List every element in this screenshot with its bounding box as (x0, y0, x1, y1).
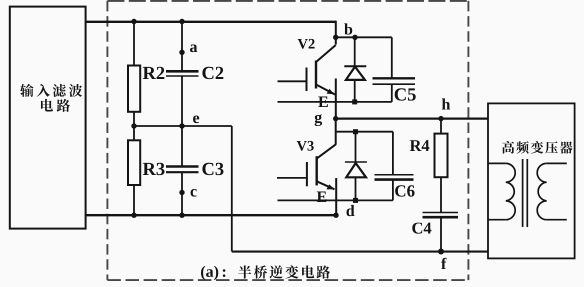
junction dot: top rail / C2 (179, 19, 184, 24)
capacitor C5 (373, 78, 416, 84)
label: input filter circuit text (20, 84, 82, 112)
junction square: diode D2 anode row (352, 99, 357, 104)
label f (441, 258, 446, 269)
wire: V3 branch row to C6 (392, 132, 394, 175)
wire: V2 collector drop from top rail (335, 21, 337, 45)
label R3 (143, 163, 156, 175)
junction square: diode D3 anode row (353, 198, 358, 203)
node g (333, 116, 338, 121)
wire: top DC rail (85, 21, 336, 23)
wire: C2 to node e (181, 76, 183, 126)
wire: node h to R4 (440, 119, 442, 134)
label R2 (143, 67, 156, 79)
wire: node e to C3 (181, 126, 183, 167)
dashed enclosure: half-bridge inverter block (107, 1, 468, 280)
label E (V3 emitter) (317, 192, 327, 202)
caption: (a) half-bridge inverter circuit (201, 265, 330, 280)
node h (438, 116, 443, 121)
wire: C6 to emitter row (392, 180, 394, 201)
transistor V3 (IGBT) (277, 144, 336, 215)
node c (179, 190, 184, 195)
label d (346, 205, 354, 216)
wire: node g to V3 collector (335, 119, 337, 145)
junction dot: collector / node b branch (333, 35, 338, 40)
capacitor C4 (423, 213, 459, 218)
label b (344, 23, 352, 34)
node e (179, 123, 184, 128)
label e (193, 115, 199, 123)
HF transformer block box (488, 103, 575, 258)
resistor R4 (435, 134, 448, 178)
wire: V3 branch top row (336, 131, 393, 133)
wire: node f row to transformer (232, 251, 488, 253)
label h (442, 98, 450, 109)
label: HF transformer text (502, 141, 514, 153)
diode D3 (freewheel of V3) (345, 132, 367, 201)
node d (333, 213, 338, 218)
wire: R2 to node e row (133, 112, 135, 126)
label E (V2 emitter) (318, 97, 328, 107)
wire: node b row to C5 (391, 37, 393, 78)
capacitor C3 (166, 167, 199, 173)
wire: node g to node h to transformer (336, 117, 488, 119)
wire: return line e to f row (vertical) (231, 126, 233, 252)
node a (179, 50, 184, 55)
resistor R2 (128, 66, 140, 112)
wire: V2 emitter reference / diode bottom row (278, 101, 392, 103)
label C2 (202, 67, 213, 79)
wire: top rail to R2 (133, 22, 135, 66)
wire: top rail to C2 through node a (181, 22, 183, 72)
diode D2 (freewheel of V2) (344, 37, 366, 102)
wire: e row to R3 (133, 126, 135, 140)
label C6 (395, 185, 405, 196)
resistor R3 (128, 140, 140, 185)
junction dot: bottom rail / C3 (179, 213, 184, 218)
transformer T1 (488, 159, 567, 227)
label C4 (412, 223, 422, 234)
input filter block box (10, 7, 86, 229)
capacitor C2 (166, 71, 199, 76)
node b (352, 35, 357, 40)
label R4 (410, 140, 422, 151)
wire: C3 to bottom rail through node c (181, 172, 183, 215)
capacitor C6 (375, 175, 414, 180)
label a (190, 44, 197, 52)
label V3 (297, 141, 307, 151)
wire: R3 to bottom rail (133, 185, 135, 215)
label C3 (202, 163, 213, 175)
wire: C4 to node f (440, 217, 442, 251)
wire: node e row (134, 125, 232, 127)
junction dot: R2/R3 (131, 123, 136, 128)
junction dot: top rail / R2 (131, 19, 136, 24)
junction dot: bottom rail / R3 (131, 213, 136, 218)
wire: node b row (336, 36, 392, 38)
label V2 (298, 39, 308, 49)
wire: V3 emitter reference / diode bottom row (278, 199, 393, 201)
junction square: D3 cathode row (353, 129, 358, 134)
wire: bottom DC rail to node d (85, 214, 336, 216)
label C5 (395, 88, 406, 100)
wire: C5 to emitter row (391, 84, 393, 102)
label c (191, 189, 197, 197)
transistor V2 (IGBT) (278, 45, 336, 119)
label g (315, 114, 322, 126)
node f (438, 249, 444, 255)
wire: R4 to C4 (440, 177, 442, 212)
